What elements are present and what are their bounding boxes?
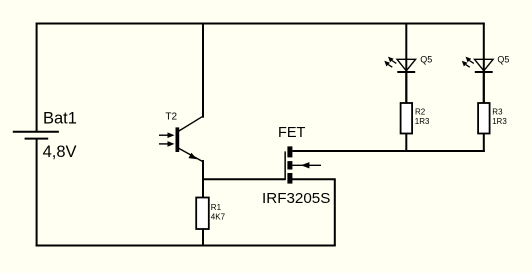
wire T2 collector bbox=[202, 23, 204, 118]
svg-text:R2: R2 bbox=[415, 108, 426, 117]
wire LED2 to R3 bbox=[483, 72, 485, 103]
svg-text:Q5: Q5 bbox=[420, 54, 432, 64]
svg-text:R3: R3 bbox=[492, 108, 503, 117]
wire R2 to drain wire bbox=[405, 134, 407, 153]
wire LED1 to R2 bbox=[405, 72, 407, 103]
wire battery minus to bottom rail bbox=[36, 139, 38, 247]
label R1 4K7 bbox=[211, 203, 226, 221]
junction R1 bottom bbox=[202, 245, 204, 247]
wire gate bbox=[202, 178, 286, 180]
resistor R2 bbox=[401, 103, 413, 134]
svg-text:1R3: 1R3 bbox=[492, 117, 507, 126]
wire LED branch 2 top bbox=[483, 23, 485, 103]
wire FET drain to LED branches bbox=[292, 150, 484, 152]
LED D1 Q5 bbox=[384, 57, 415, 72]
resistor R1 bbox=[196, 198, 209, 230]
svg-text:IRF3205S: IRF3205S bbox=[262, 190, 330, 207]
battery Bat1 bbox=[13, 132, 59, 139]
wire bottom rail bbox=[36, 245, 336, 247]
svg-text:4K7: 4K7 bbox=[211, 212, 226, 221]
resistor R3 bbox=[478, 103, 490, 134]
svg-text:R1: R1 bbox=[211, 203, 222, 212]
wire LED branch 1 top bbox=[405, 23, 407, 103]
svg-text:Bat1: Bat1 bbox=[43, 109, 77, 127]
svg-text:4,8V: 4,8V bbox=[43, 143, 77, 161]
junction gate tap bbox=[202, 178, 204, 180]
label R3 1R3 bbox=[492, 108, 507, 126]
wire T2 emitter to R1 bbox=[202, 160, 204, 198]
wire R1 to bottom rail bbox=[202, 229, 204, 246]
wire top rail bbox=[36, 23, 485, 25]
svg-text:1R3: 1R3 bbox=[415, 117, 430, 126]
phototransistor T2 bbox=[159, 116, 203, 161]
wire FET source to bottom rail bbox=[292, 179, 335, 245]
svg-text:FET: FET bbox=[278, 125, 306, 141]
wire battery plus to top rail bbox=[36, 23, 38, 132]
svg-text:Q5: Q5 bbox=[497, 54, 509, 64]
svg-text:T2: T2 bbox=[165, 111, 177, 122]
wire R3 to drain wire bbox=[483, 134, 485, 153]
label R2 1R3 bbox=[415, 108, 430, 126]
LED D2 Q5 bbox=[462, 57, 493, 72]
MOSFET FET IRF3205S bbox=[284, 146, 321, 183]
